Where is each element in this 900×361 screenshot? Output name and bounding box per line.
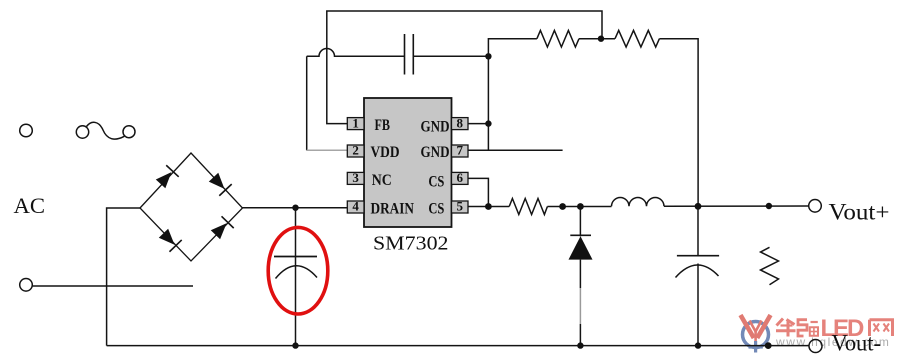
svg-text:CS: CS xyxy=(428,201,444,218)
node C1 right junction xyxy=(485,53,491,59)
svg-text:FB: FB xyxy=(375,117,391,134)
terminal AC line xyxy=(20,124,33,137)
svg-text:3: 3 xyxy=(352,170,359,185)
svg-text:Vout+: Vout+ xyxy=(829,200,890,225)
resistor R1 xyxy=(537,30,579,47)
wire AC neutral xyxy=(32,285,193,287)
watermark text 华 xyxy=(776,319,796,337)
svg-text:6: 6 xyxy=(456,170,463,185)
watermark text 网 xyxy=(870,320,893,336)
node R1-R2 junction xyxy=(598,36,604,42)
bottom rail wire xyxy=(107,345,809,347)
svg-text:DRAIN: DRAIN xyxy=(371,201,415,218)
pin 6 box xyxy=(452,170,469,185)
svg-text:AC: AC xyxy=(14,193,46,218)
node pin8 junction xyxy=(485,120,491,126)
svg-text:GND: GND xyxy=(421,144,450,161)
svg-text:Vout-: Vout- xyxy=(832,330,882,355)
node output cap top xyxy=(695,203,702,210)
wire cap C1 right xyxy=(413,55,488,57)
pin 3 box xyxy=(347,170,364,185)
node pin5 junction xyxy=(485,203,492,210)
wire pin 6 lead xyxy=(468,178,488,206)
svg-text:VDD: VDD xyxy=(371,144,400,161)
wire R3 to inductor xyxy=(547,206,611,208)
node input cap bottom xyxy=(292,342,298,348)
inductor L1 xyxy=(612,198,665,207)
pin 8 box xyxy=(452,115,469,130)
wire pin 7 lead xyxy=(468,149,563,151)
svg-text:1: 1 xyxy=(352,115,359,130)
svg-text:SM7302: SM7302 xyxy=(373,233,449,255)
red highlight ellipse xyxy=(268,227,328,314)
resistor R4 load xyxy=(761,247,779,284)
resistor R2 xyxy=(615,30,659,47)
pin 4 box xyxy=(347,199,364,214)
node R4 top xyxy=(766,203,772,209)
svg-text:2: 2 xyxy=(352,143,359,158)
watermark text 强 xyxy=(798,320,818,336)
svg-text:5: 5 xyxy=(456,199,463,214)
svg-text:GND: GND xyxy=(421,118,450,135)
svg-text:7: 7 xyxy=(456,143,463,158)
terminal Vout+ xyxy=(809,200,822,213)
diode BR1 top-left xyxy=(154,165,178,189)
wire GND bus vertical xyxy=(488,39,537,150)
wire pin 5 lead xyxy=(468,206,509,208)
bridge rectifier BR1 edges xyxy=(140,153,243,261)
capacitor C2 input bulk xyxy=(274,208,317,346)
capacitor C1 xyxy=(405,34,414,75)
node diode bottom xyxy=(577,342,583,348)
wire L1 to Vout+ xyxy=(664,205,809,207)
IC U1 SM7302 body xyxy=(364,98,452,227)
wire VDD gray lead xyxy=(307,149,348,151)
node output cap bottom xyxy=(695,342,701,348)
terminal AC neutral xyxy=(20,279,33,292)
node cs rail xyxy=(559,203,566,210)
watermark logo 华强LED网 xyxy=(741,315,771,353)
wire bridge left to bottom rail xyxy=(107,208,140,346)
wire R1 to R2 xyxy=(579,38,615,40)
diode BR1 top-right xyxy=(207,171,231,195)
wire FB loop: pin1 up and across top to R divider xyxy=(327,11,602,124)
node diode top xyxy=(577,203,584,210)
svg-text:NC: NC xyxy=(372,172,392,189)
wire pin 8 lead xyxy=(468,123,488,125)
diode BR1 bottom-left xyxy=(157,227,181,251)
svg-text:8: 8 xyxy=(456,115,463,130)
pin 2 box xyxy=(347,143,364,158)
wire bridge right to pin 4 xyxy=(243,207,348,209)
wire R2 to right rail xyxy=(659,39,698,207)
pin 1 box xyxy=(347,115,364,130)
wire cap C1 left with hop xyxy=(307,49,405,57)
svg-text:CS: CS xyxy=(428,173,444,190)
diode BR1 bottom-right xyxy=(209,216,233,240)
svg-text:4: 4 xyxy=(352,199,359,214)
node input cap top xyxy=(292,205,298,211)
capacitor C3 output xyxy=(676,206,720,345)
diode D1 freewheel xyxy=(569,207,593,346)
pin 7 box xyxy=(452,143,469,158)
node R4 bottom xyxy=(765,342,772,349)
pin 5 box xyxy=(452,199,469,214)
wire VDD branch vertical xyxy=(306,56,308,150)
resistor R3 xyxy=(509,199,547,215)
fuse F1 xyxy=(76,122,135,139)
terminal Vout- xyxy=(809,340,822,353)
